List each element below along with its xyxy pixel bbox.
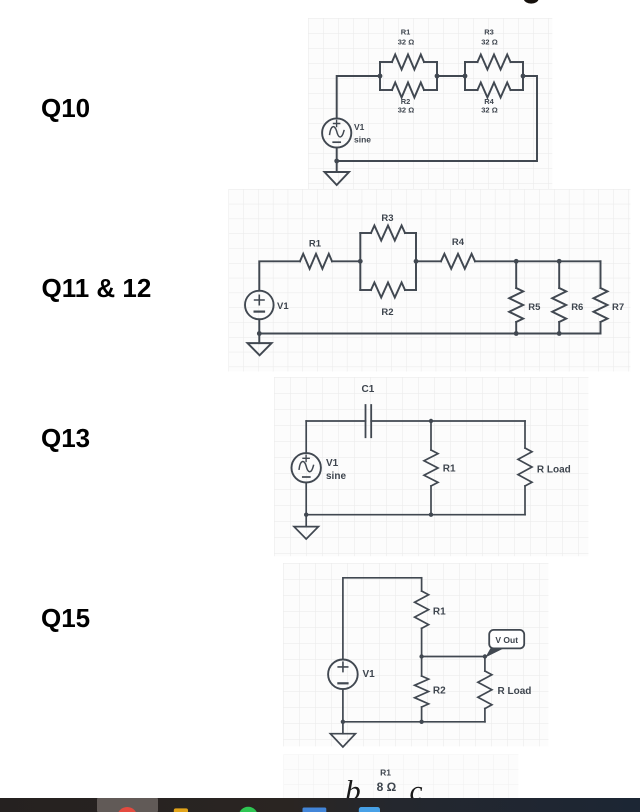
svg-text:V1: V1	[277, 301, 289, 312]
svg-text:R1: R1	[443, 464, 456, 475]
svg-text:R1: R1	[433, 607, 446, 618]
svg-text:C1: C1	[362, 384, 375, 395]
svg-text:R4: R4	[452, 237, 465, 248]
svg-text:sine: sine	[326, 471, 346, 482]
svg-text:R2: R2	[433, 686, 446, 697]
svg-text:R1: R1	[309, 239, 322, 250]
svg-text:V1: V1	[354, 122, 365, 132]
svg-text:R7: R7	[612, 302, 624, 313]
svg-text:32 Ω: 32 Ω	[481, 38, 497, 47]
svg-text:R2: R2	[381, 307, 393, 318]
svg-text:32 Ω: 32 Ω	[398, 106, 414, 115]
svg-text:sine: sine	[354, 134, 371, 144]
svg-text:R1: R1	[380, 768, 391, 778]
svg-text:32 Ω: 32 Ω	[398, 38, 414, 47]
svg-text:32 Ω: 32 Ω	[481, 106, 497, 115]
svg-text:R Load: R Load	[498, 686, 532, 697]
svg-text:V Out: V Out	[495, 635, 518, 645]
svg-text:R3: R3	[381, 213, 393, 224]
svg-text:R4: R4	[484, 97, 494, 106]
svg-text:V1: V1	[363, 669, 376, 680]
svg-text:R5: R5	[528, 302, 541, 313]
svg-text:R3: R3	[484, 28, 494, 37]
svg-text:R Load: R Load	[537, 465, 571, 476]
svg-text:8 Ω: 8 Ω	[377, 780, 397, 794]
svg-text:R6: R6	[571, 302, 583, 313]
svg-text:V1: V1	[326, 458, 339, 469]
svg-text:R2: R2	[401, 97, 411, 106]
svg-text:R1: R1	[401, 28, 411, 37]
